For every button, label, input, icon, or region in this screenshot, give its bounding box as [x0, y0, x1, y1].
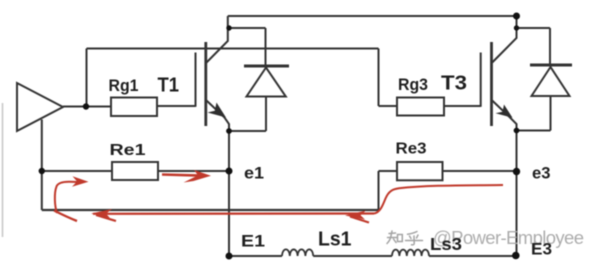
svg-text:Rg3: Rg3	[398, 76, 428, 94]
svg-text:T3: T3	[441, 73, 467, 95]
svg-text:Re3: Re3	[396, 141, 427, 158]
svg-text:E1: E1	[241, 232, 265, 251]
svg-text:Re1: Re1	[110, 142, 146, 159]
svg-text:e1: e1	[244, 165, 264, 183]
svg-text:E3: E3	[531, 240, 552, 259]
svg-text:e3: e3	[532, 165, 551, 183]
svg-text:Ls1: Ls1	[318, 229, 352, 251]
svg-text:Rg1: Rg1	[109, 77, 139, 95]
svg-text:Ls3: Ls3	[430, 234, 462, 254]
svg-text:T1: T1	[158, 75, 180, 97]
